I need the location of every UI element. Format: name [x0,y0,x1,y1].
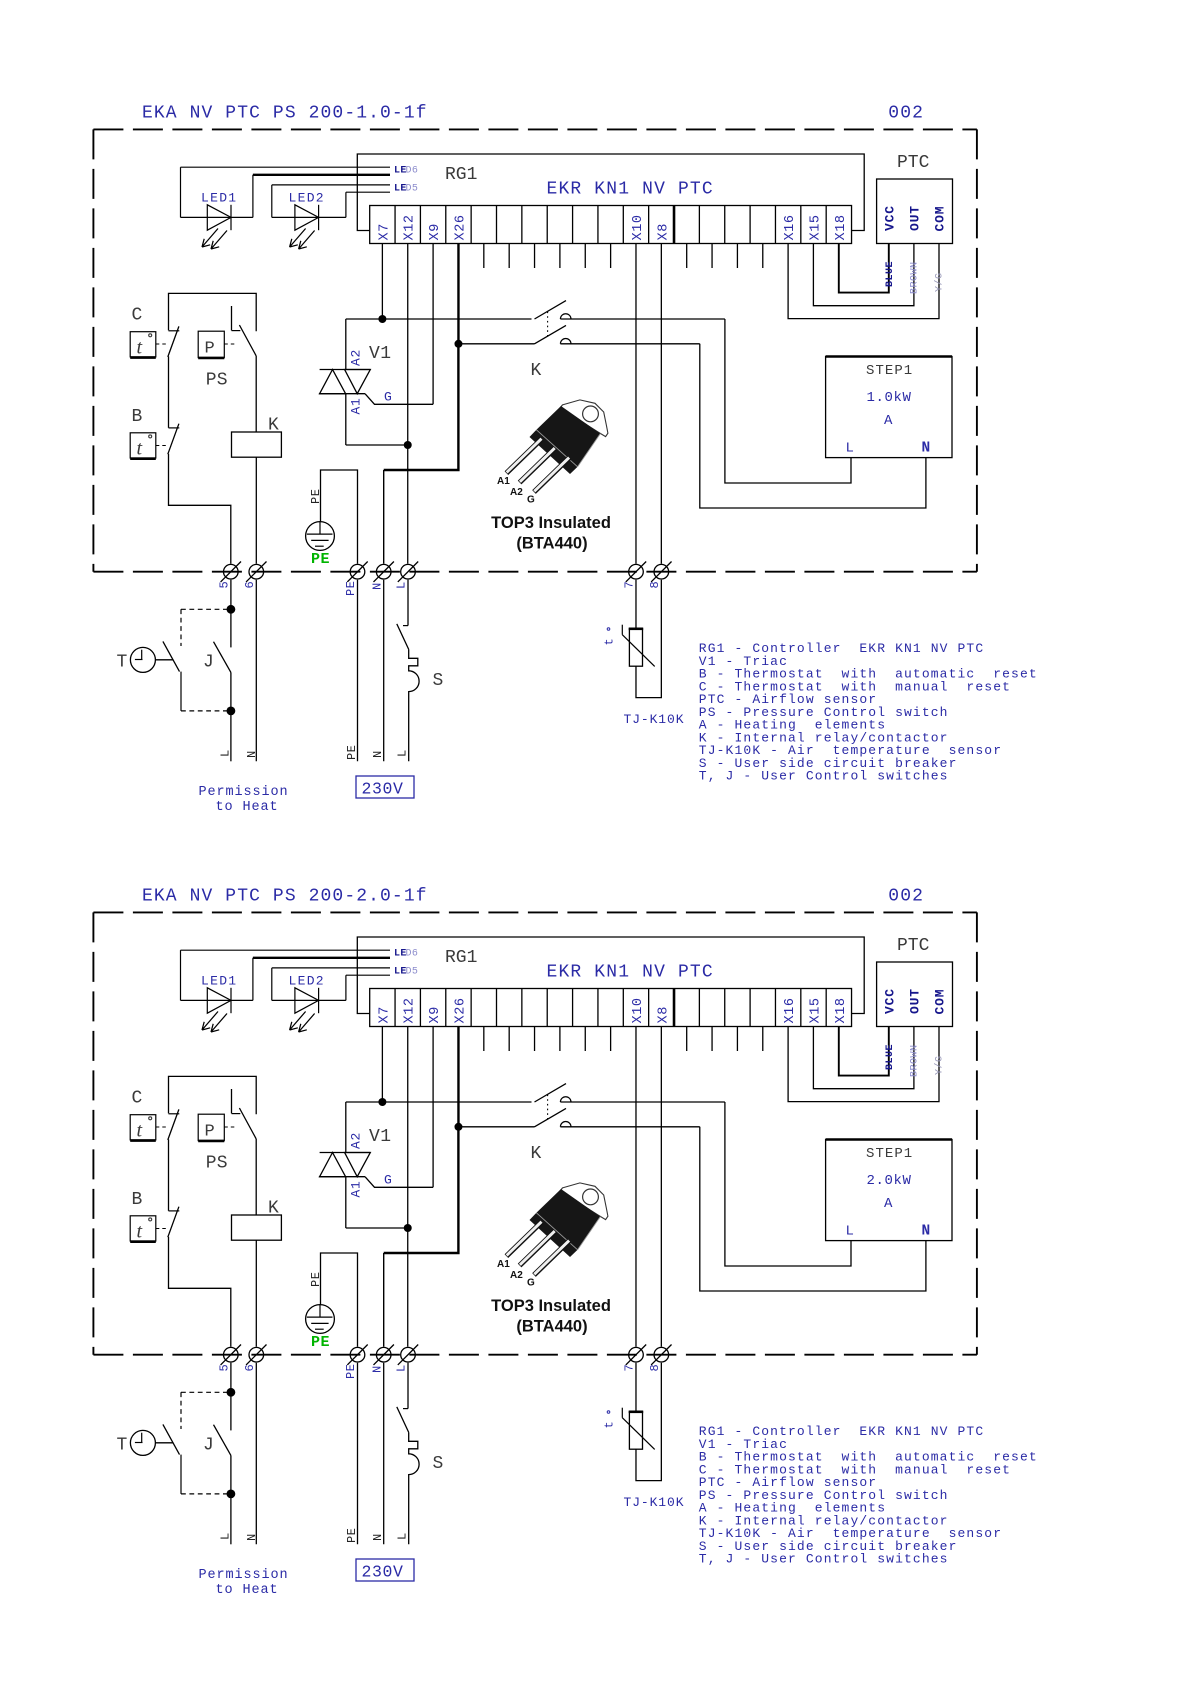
svg-text:K: K [531,361,542,381]
clock symbol of T [130,647,155,672]
svg-text:A: A [884,413,893,429]
svg-text:T, J - User Control switches: T, J - User Control switches [699,769,949,784]
svg-text:Permission: Permission [198,785,288,800]
svg-text:S: S [433,671,444,691]
wire X7 down [381,244,383,320]
svg-text:X9: X9 [428,223,443,240]
wire X8 to terminal 8 [660,244,662,564]
wire top bracket joining C and PS branches [169,293,257,331]
svg-text:8: 8 [648,581,662,588]
stub wire from empty cell 7 [534,244,536,269]
svg-text:C: C [132,306,143,326]
svg-text:PE: PE [309,489,323,504]
svg-text:t: t [137,438,143,460]
mechanical link of K contacts (dotted) [547,312,549,339]
wire OUT to X15 (BROWN) [813,244,914,306]
wire X12 down [407,244,409,446]
svg-text:X10: X10 [631,214,646,240]
earth ground symbol PE [306,522,335,551]
svg-text:COM: COM [933,206,948,232]
svg-text:L: L [395,582,409,589]
svg-text:A1: A1 [349,397,364,414]
svg-text:1.0kW: 1.0kW [867,390,912,406]
wire VCC to X18 (BLUE) [839,244,889,293]
diagram 2: duplicate circuit EKA NV PTC PS 200-2.0-1f [93,912,1037,1598]
wire LED5 upper (LED2 anode to RG1) [272,184,390,186]
svg-text:t: t [137,337,143,359]
terminal L [401,564,416,579]
svg-text:to Heat: to Heat [215,800,278,815]
svg-text:TOP3 Insulated: TOP3 Insulated [491,514,611,532]
junction X7/A2 [378,315,386,323]
svg-text:EKA NV PTC PS 200-2.0-1f: EKA NV PTC PS 200-2.0-1f [142,887,428,907]
heating element STEP1 box [826,357,952,458]
bold wire X26 down [457,244,459,344]
wire contact K2 to STEP1 N [700,344,926,508]
triac V1 [320,369,371,371]
terminal 7 [629,564,644,579]
wire B branch down to terminal 5 [169,454,231,564]
wire LED6 lower thick (LED1 cathode to RG1) [253,174,390,176]
svg-text:PE: PE [345,745,359,760]
terminal 8 [654,564,669,579]
wire A2 to X7 and relay contact K1 [346,318,532,320]
junction X26 / contact K2 [454,340,462,348]
wire A1 to X12 [346,444,408,446]
dashed enclosure border of controller unit [93,128,977,130]
wire X26 junction to contact K2 [458,343,534,345]
wire terminal 7 to sensor [635,580,637,629]
wire LED5 lower (LED2 cathode to RG1) [346,191,390,193]
P box of pressure switch [198,331,224,357]
svg-text:6: 6 [243,581,257,588]
circuit breaker S on L wire [407,580,409,626]
stub wire from empty cell 15 [736,244,738,269]
svg-text:A2: A2 [510,487,523,498]
stub wire from empty cell 13 [686,244,688,269]
wire PE from earth symbol to terminal PE [321,470,358,564]
LED LED2 [271,185,273,218]
stub wire from empty cell 16 [762,244,764,269]
wire terminal 6 to N user side [255,580,257,762]
wire X12/A1 to terminal L [407,445,409,564]
svg-text:X7: X7 [377,223,392,240]
wire contact K1 to STEP1 L [725,319,851,483]
thermostat contact C (manual reset) [169,330,180,332]
pressure switch PS contact [231,306,233,330]
wire terminal 5 down [230,580,232,610]
triac package drawing TOP3 (BTA440) [506,400,608,492]
svg-text:X26: X26 [453,214,468,240]
svg-text:B: B [132,407,143,427]
svg-text:EKA NV PTC PS 200-1.0-1f: EKA NV PTC PS 200-1.0-1f [142,104,428,124]
wire sensor to terminal 8 [636,580,661,698]
svg-text:K: K [268,415,279,435]
svg-text:X18: X18 [834,214,849,240]
junction A1/X12 [404,441,412,449]
junction T-J top [227,605,236,614]
stub wire from empty cell 6 [508,244,510,269]
svg-text:L: L [846,441,854,457]
wire L user side [230,711,232,761]
LED LED1 [180,167,182,217]
svg-text:N: N [371,751,385,758]
svg-text:230V: 230V [362,780,404,799]
svg-text:G: G [384,390,392,405]
svg-text:X12: X12 [403,214,418,240]
airflow sensor PTC box [877,179,953,244]
stub wire from empty cell 10 [610,244,612,269]
svg-text:A1: A1 [497,476,510,487]
bold wire X26 to terminal N [384,344,459,470]
svg-text:PTC: PTC [897,153,930,173]
svg-text:BLUE: BLUE [885,261,896,287]
svg-text:T: T [117,653,128,673]
svg-text:N: N [922,441,931,457]
svg-text:PE: PE [344,581,358,596]
svg-text:X16: X16 [783,214,798,240]
air temperature sensor TJ-K10K (thermistor) [629,629,642,666]
terminal G of V1 wire to X9 [365,394,433,405]
wire N user side [383,580,385,762]
svg-text:EKR KN1 NV PTC: EKR KN1 NV PTC [547,180,714,200]
stub wire from empty cell 8 [559,244,561,269]
terminal A2 of V1 [345,319,347,370]
terminal A1 of V1 [345,394,347,445]
svg-text:t: t [603,638,617,645]
wire PE user side [357,580,359,762]
svg-text:2.0kW: 2.0kW [867,1173,912,1189]
svg-text:BROWN: BROWN [909,261,920,294]
svg-text:N: N [245,751,259,758]
svg-text:A2: A2 [349,349,364,366]
svg-text:5: 5 [218,581,232,588]
svg-text:J: J [203,653,214,673]
svg-text:N: N [370,583,384,590]
bold divider after X8 cell [673,206,676,244]
terminal strip of RG1 (19 cells) [370,206,852,244]
svg-text:PS: PS [206,371,228,391]
controller RG1 outer box [357,154,864,231]
wire PS to relay coil K [255,356,257,432]
junction T-J bottom [227,707,236,716]
svg-text:P: P [205,340,215,359]
relay contact K1 (upper) [535,301,567,319]
svg-text:D6: D6 [406,165,419,176]
svg-text:L: L [395,750,409,757]
svg-text:X8: X8 [656,223,671,240]
wire COM to X16 (Y/G) [788,244,939,319]
terminal N [376,564,391,579]
svg-text:TJ-K10K: TJ-K10K [624,712,685,727]
diagram 1: EKA NV PTC PS 200-1.0-1f [93,129,1037,815]
terminal 5 [224,564,239,579]
svg-text:D5: D5 [406,183,419,194]
svg-text:L: L [218,750,232,757]
thermostat contact B (automatic reset) [169,427,180,429]
stub wire from empty cell 9 [584,244,586,269]
dashed actuator link B [156,445,168,447]
wire coil K to terminal 6 [255,457,257,564]
svg-text:LED2: LED2 [289,191,325,206]
wire LED6 upper (LED1 anode to RG1) [181,166,391,168]
svg-text:LED1: LED1 [201,191,237,206]
t-deg box of thermostat B [130,433,156,458]
dashed link box of T/J [181,608,231,610]
relay coil K [232,432,282,457]
svg-text:002: 002 [888,104,924,124]
timer switch T [180,672,182,711]
svg-text:VCC: VCC [882,205,897,231]
wire X10 to terminal 7 [635,244,637,564]
svg-text:G: G [527,495,535,506]
wire C to B [168,356,170,427]
wire X9 down to gate wire [432,244,434,405]
svg-text:V1: V1 [369,344,391,364]
terminal PE [350,564,365,579]
svg-text:OUT: OUT [907,205,922,231]
stub wire from empty cell 5 [483,244,485,269]
svg-text:RG1: RG1 [445,165,477,185]
box 230V [356,776,414,798]
svg-text:X15: X15 [809,214,824,240]
svg-text:STEP1: STEP1 [866,363,913,379]
svg-text:(BTA440): (BTA440) [516,535,587,553]
switch J [230,609,232,647]
terminal 6 [249,564,264,579]
svg-text:PE: PE [311,551,330,568]
relay contact K2 (lower) [535,325,567,343]
svg-text:002: 002 [888,887,924,907]
dashed actuator link C [156,343,168,345]
svg-text:Y/G: Y/G [933,272,945,292]
svg-text:7: 7 [623,581,637,588]
t-deg box of thermostat C [130,332,156,357]
stub wire from empty cell 14 [711,244,713,269]
dashed actuator link PS [224,343,237,345]
